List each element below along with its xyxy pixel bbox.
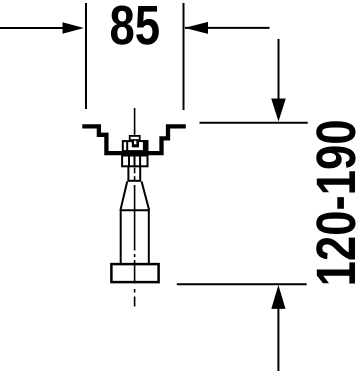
dimension 120-190: lower vertical leader xyxy=(277,306,279,371)
centerline dot below base xyxy=(134,289,136,293)
foot base plate xyxy=(111,264,158,282)
dimension 120-190: top extension line xyxy=(200,122,308,124)
dimension 85: right arrowhead xyxy=(185,22,209,34)
dimension 85: left arrowhead xyxy=(63,22,85,34)
centerline segment above cap xyxy=(134,108,136,135)
dimension 120-190: up arrowhead xyxy=(271,285,285,309)
dimension text 85 xyxy=(111,5,159,44)
centerline end dash xyxy=(134,297,136,307)
lower nut middle line xyxy=(134,155,136,168)
cone base junction line xyxy=(120,209,150,211)
cone left slope xyxy=(120,182,127,211)
dimension 120-190: down arrowhead xyxy=(271,99,286,122)
spindle collar left edge xyxy=(127,167,129,181)
upper nut body xyxy=(123,141,148,151)
cylinder left edge xyxy=(120,210,122,263)
centerline segment in collar upper xyxy=(134,168,136,174)
cone right slope xyxy=(142,182,150,211)
nut centre blob white notch xyxy=(134,141,136,145)
centerline long dash through cone and cylinder xyxy=(134,185,136,251)
dimension 120-190: bottom extension line xyxy=(177,283,307,285)
centerline segment through base plate xyxy=(134,260,136,284)
centerline segment in collar lower xyxy=(134,176,136,181)
lower nut body xyxy=(122,156,147,167)
dimension 85: right extension line xyxy=(183,3,185,110)
cylinder right edge xyxy=(148,210,150,263)
nut centre chamfer blob xyxy=(132,141,139,148)
upper nut left facet line xyxy=(126,141,128,152)
dimension 120-190: upper vertical leader xyxy=(278,39,280,102)
tub rim bracket profile (thick stepped section) xyxy=(82,126,186,153)
spindle collar bottom edge xyxy=(127,180,141,182)
adjuster cap on top of nut xyxy=(130,136,140,140)
spindle collar right edge xyxy=(139,167,141,181)
lower nut left facet line xyxy=(128,155,130,168)
dimension 85: right leader line xyxy=(185,27,270,29)
centerline dot above base xyxy=(134,254,136,257)
dimension 85: left extension line xyxy=(85,3,87,109)
lower nut right facet line xyxy=(139,155,141,168)
dimension 85: left leader line xyxy=(0,27,68,29)
upper nut right facet line xyxy=(143,140,149,152)
dimension text 120-190 (rotated) xyxy=(316,121,355,283)
